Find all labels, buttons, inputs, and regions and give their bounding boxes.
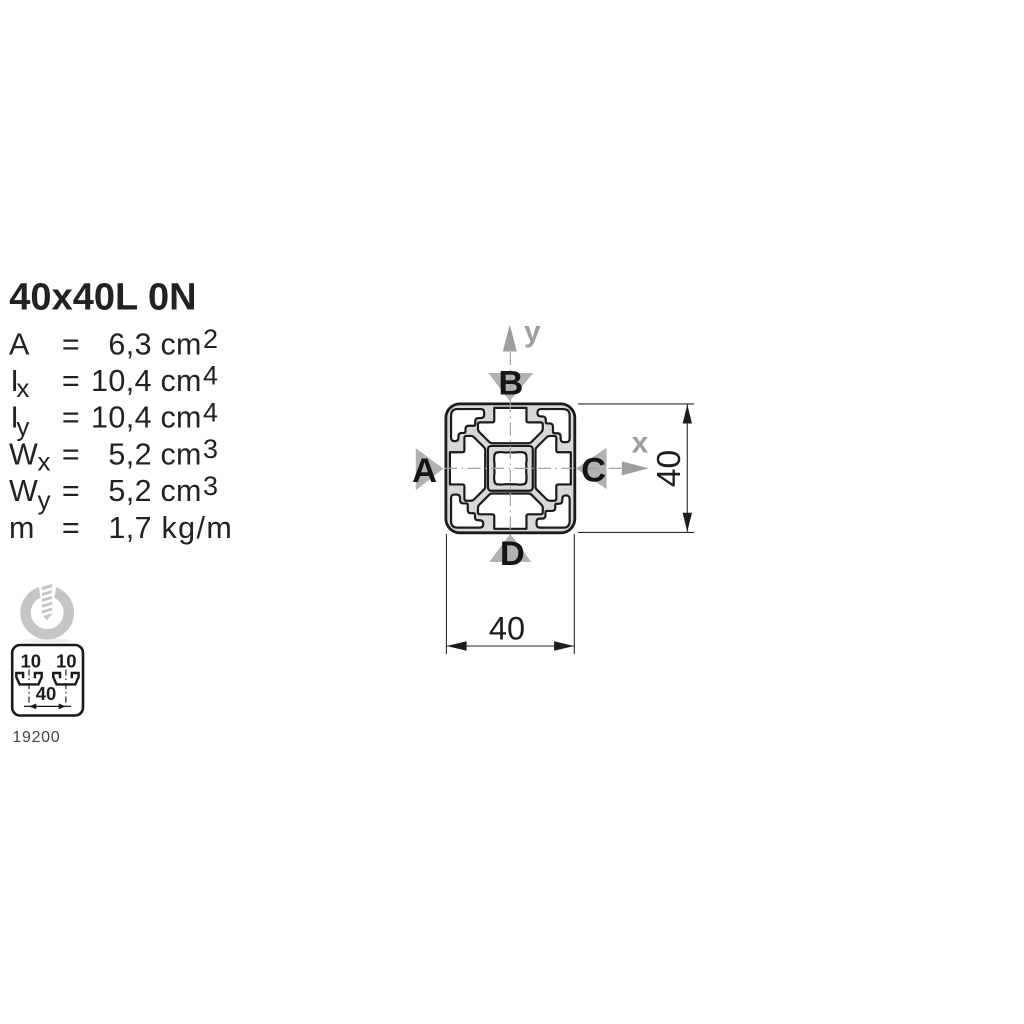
extension line right-bottom [578, 531, 694, 533]
svg-text:B: B [498, 365, 523, 403]
box arrowhead right [59, 704, 66, 710]
slot symbol left [16, 673, 41, 684]
title 40x40L 0N [9, 277, 233, 545]
y-axis arrowhead [503, 325, 517, 352]
box centerline left [28, 670, 30, 709]
svg-text:=: = [62, 364, 80, 398]
svg-text:x: x [38, 446, 51, 476]
svg-text:x: x [632, 427, 649, 460]
svg-text:cm: cm [161, 364, 202, 398]
screw icon shadow [23, 638, 71, 643]
svg-text:=: = [62, 401, 80, 435]
svg-text:x: x [16, 373, 29, 403]
svg-text:10,4: 10,4 [91, 401, 152, 435]
side cavity right [536, 436, 571, 501]
extension line bottom-right [573, 534, 575, 654]
svg-text:cm: cm [161, 437, 202, 471]
svg-text:cm: cm [161, 474, 202, 508]
screw icon ring [26, 591, 69, 634]
box centerline right [65, 670, 67, 709]
x-axis arrowhead [622, 461, 649, 475]
side cavity top (closed T-slot) [478, 408, 543, 443]
svg-text:=: = [62, 511, 80, 545]
svg-text:A: A [412, 452, 437, 490]
svg-text:cm: cm [161, 327, 202, 361]
arrowhead right dim top [683, 405, 692, 424]
svg-text:10,4: 10,4 [91, 364, 152, 398]
svg-text:A: A [9, 327, 30, 361]
face arrow B (top) [488, 373, 533, 401]
svg-text:=: = [62, 327, 80, 361]
extension line right-top [578, 403, 694, 405]
extension line bottom-left [445, 534, 447, 654]
box arrowhead left [29, 704, 36, 710]
svg-text:C: C [581, 452, 606, 490]
screw icon screw body [42, 584, 52, 620]
svg-text:=: = [62, 437, 80, 471]
svg-text:19200: 19200 [12, 729, 60, 746]
vertical centerline (y axis) [509, 352, 511, 540]
svg-text:40: 40 [36, 683, 57, 704]
arrowhead right dim bottom [683, 513, 692, 532]
profile outer contour 40x40 [446, 404, 575, 533]
svg-text:D: D [500, 535, 525, 573]
svg-text:4: 4 [203, 397, 218, 427]
side cavity bottom [478, 494, 543, 529]
arrowhead bottom dim left [447, 641, 467, 651]
svg-text:2: 2 [203, 324, 218, 354]
side cavity left [450, 436, 485, 501]
arrowhead bottom dim right [554, 641, 574, 651]
face arrow C (right) [576, 448, 607, 489]
svg-text:W: W [9, 474, 38, 508]
svg-text:kg/m: kg/m [162, 511, 234, 545]
central bore hole [494, 452, 527, 485]
dimension line right 40 [686, 405, 688, 532]
svg-text:3: 3 [203, 434, 218, 464]
svg-text:10: 10 [56, 651, 77, 672]
box dimension line 40 [24, 705, 71, 707]
dimension line bottom 40 [447, 645, 574, 647]
svg-text:cm: cm [161, 401, 202, 435]
svg-text:1,7: 1,7 [108, 511, 152, 545]
svg-text:W: W [9, 437, 38, 471]
svg-text:5,2: 5,2 [108, 437, 152, 471]
svg-text:40: 40 [651, 450, 688, 487]
slot symbol right [53, 673, 78, 684]
horizontal centerline (x axis) [444, 467, 621, 469]
corner cavity bottom-left [451, 495, 483, 528]
svg-text:y: y [38, 485, 51, 515]
svg-text:40x40L 0N: 40x40L 0N [9, 277, 196, 319]
corner cavity bottom-right [537, 495, 570, 527]
svg-text:4: 4 [203, 361, 218, 391]
corner cavity top-right [537, 409, 569, 442]
svg-text:40: 40 [489, 611, 525, 647]
svg-text:10: 10 [21, 651, 42, 672]
face arrow A (left) [416, 448, 444, 490]
screw icon thread stripes [40, 588, 54, 615]
svg-text:y: y [524, 316, 541, 349]
svg-text:3: 3 [203, 471, 218, 501]
svg-text:5,2: 5,2 [108, 474, 152, 508]
face arrow D (bottom) [489, 534, 531, 562]
corner cavity top-left [451, 409, 484, 441]
slot pitch box frame [12, 645, 83, 716]
svg-text:m: m [9, 511, 35, 545]
central square core [488, 446, 533, 491]
svg-text:=: = [62, 474, 80, 508]
svg-text:6,3: 6,3 [108, 327, 152, 361]
screw icon ring notch [38, 581, 57, 598]
